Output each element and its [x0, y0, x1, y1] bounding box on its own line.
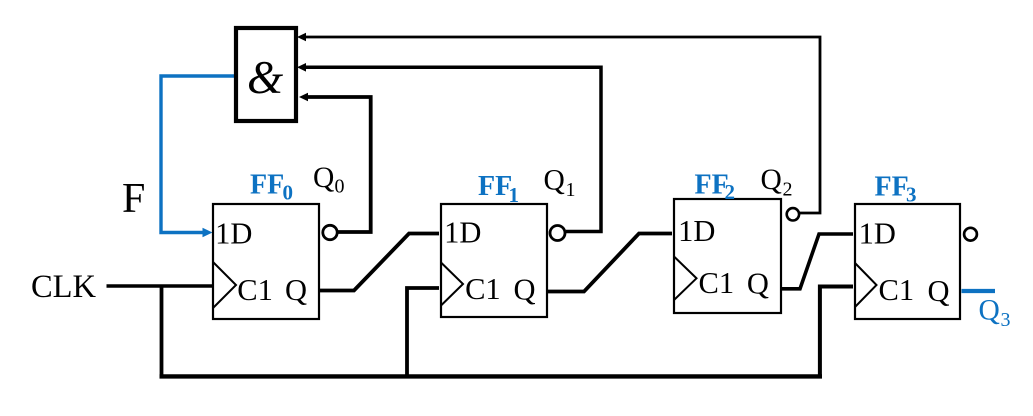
wire F (blue, AND output to FF0 1D): [161, 76, 236, 233]
svg-text:1: 1: [509, 183, 520, 207]
FF1 inverted output bubble: [550, 226, 565, 241]
svg-text:CLK: CLK: [31, 269, 97, 305]
wire Q0bar feedback (into AND input 3): [305, 97, 371, 232]
FF0 inverted output bubble: [323, 225, 337, 239]
svg-text:3: 3: [1001, 309, 1011, 331]
wire CLK branch to FF3 C1: [820, 287, 853, 377]
svg-text:&: &: [247, 53, 283, 104]
arrowhead AND input 1: [297, 33, 306, 42]
svg-text:Q: Q: [544, 165, 565, 197]
svg-text:0: 0: [283, 181, 294, 205]
svg-text:Q: Q: [761, 164, 782, 196]
svg-text:3: 3: [906, 183, 917, 207]
wire CLK bottom bus: [160, 374, 823, 378]
FF2 inverted output bubble: [787, 208, 799, 220]
svg-text:Q: Q: [514, 273, 536, 307]
wire CLK branch to FF1 C1: [407, 288, 439, 376]
svg-text:Q: Q: [285, 273, 307, 307]
and-gate U1: [236, 28, 296, 121]
svg-text:FF: FF: [875, 172, 909, 203]
svg-text:2: 2: [783, 179, 793, 201]
svg-text:1D: 1D: [444, 216, 481, 250]
svg-text:Q: Q: [313, 162, 334, 194]
svg-text:Q: Q: [928, 274, 950, 308]
arrowhead AND input 3: [299, 93, 308, 102]
svg-text:1D: 1D: [678, 214, 715, 248]
arrowhead F into 1D: [203, 228, 213, 237]
svg-text:1D: 1D: [215, 217, 252, 251]
wire FF1 Q to FF2 1D: [548, 234, 672, 292]
flip-flop FF2 box: [674, 199, 781, 313]
svg-text:FF: FF: [250, 170, 284, 201]
svg-text:C1: C1: [237, 273, 273, 307]
wire FF0 Q to FF1 1D: [320, 234, 439, 291]
svg-text:F: F: [122, 176, 145, 222]
svg-text:1D: 1D: [859, 217, 896, 251]
flip-flop FF0 box: [213, 204, 319, 319]
wire FF2 Q to FF3 1D: [782, 234, 853, 289]
svg-text:C1: C1: [879, 273, 915, 307]
svg-text:2: 2: [725, 180, 736, 204]
FF0 clock triangle: [213, 262, 236, 308]
svg-text:1: 1: [566, 179, 576, 201]
svg-text:Q: Q: [979, 295, 1000, 327]
flip-flop FF1 box: [441, 204, 547, 317]
wire Q2bar feedback (top, into AND input 1): [303, 37, 820, 213]
arrowhead AND input 2: [297, 63, 306, 72]
FF1 clock triangle: [441, 263, 463, 306]
flip-flop FF3 box: [855, 204, 960, 319]
FF3 inverted output bubble: [964, 228, 977, 241]
wire Q3 output (blue): [962, 289, 996, 293]
svg-text:0: 0: [335, 176, 345, 198]
svg-text:Q: Q: [747, 267, 769, 301]
wire Q1bar feedback (into AND input 2): [303, 67, 601, 231]
FF2 clock triangle: [674, 257, 697, 301]
svg-text:FF: FF: [478, 171, 512, 202]
FF3 clock triangle: [855, 263, 877, 307]
svg-text:C1: C1: [699, 266, 735, 300]
wire CLK input: [107, 284, 214, 287]
svg-text:C1: C1: [465, 272, 501, 306]
wire CLK junction vertical: [160, 286, 164, 376]
